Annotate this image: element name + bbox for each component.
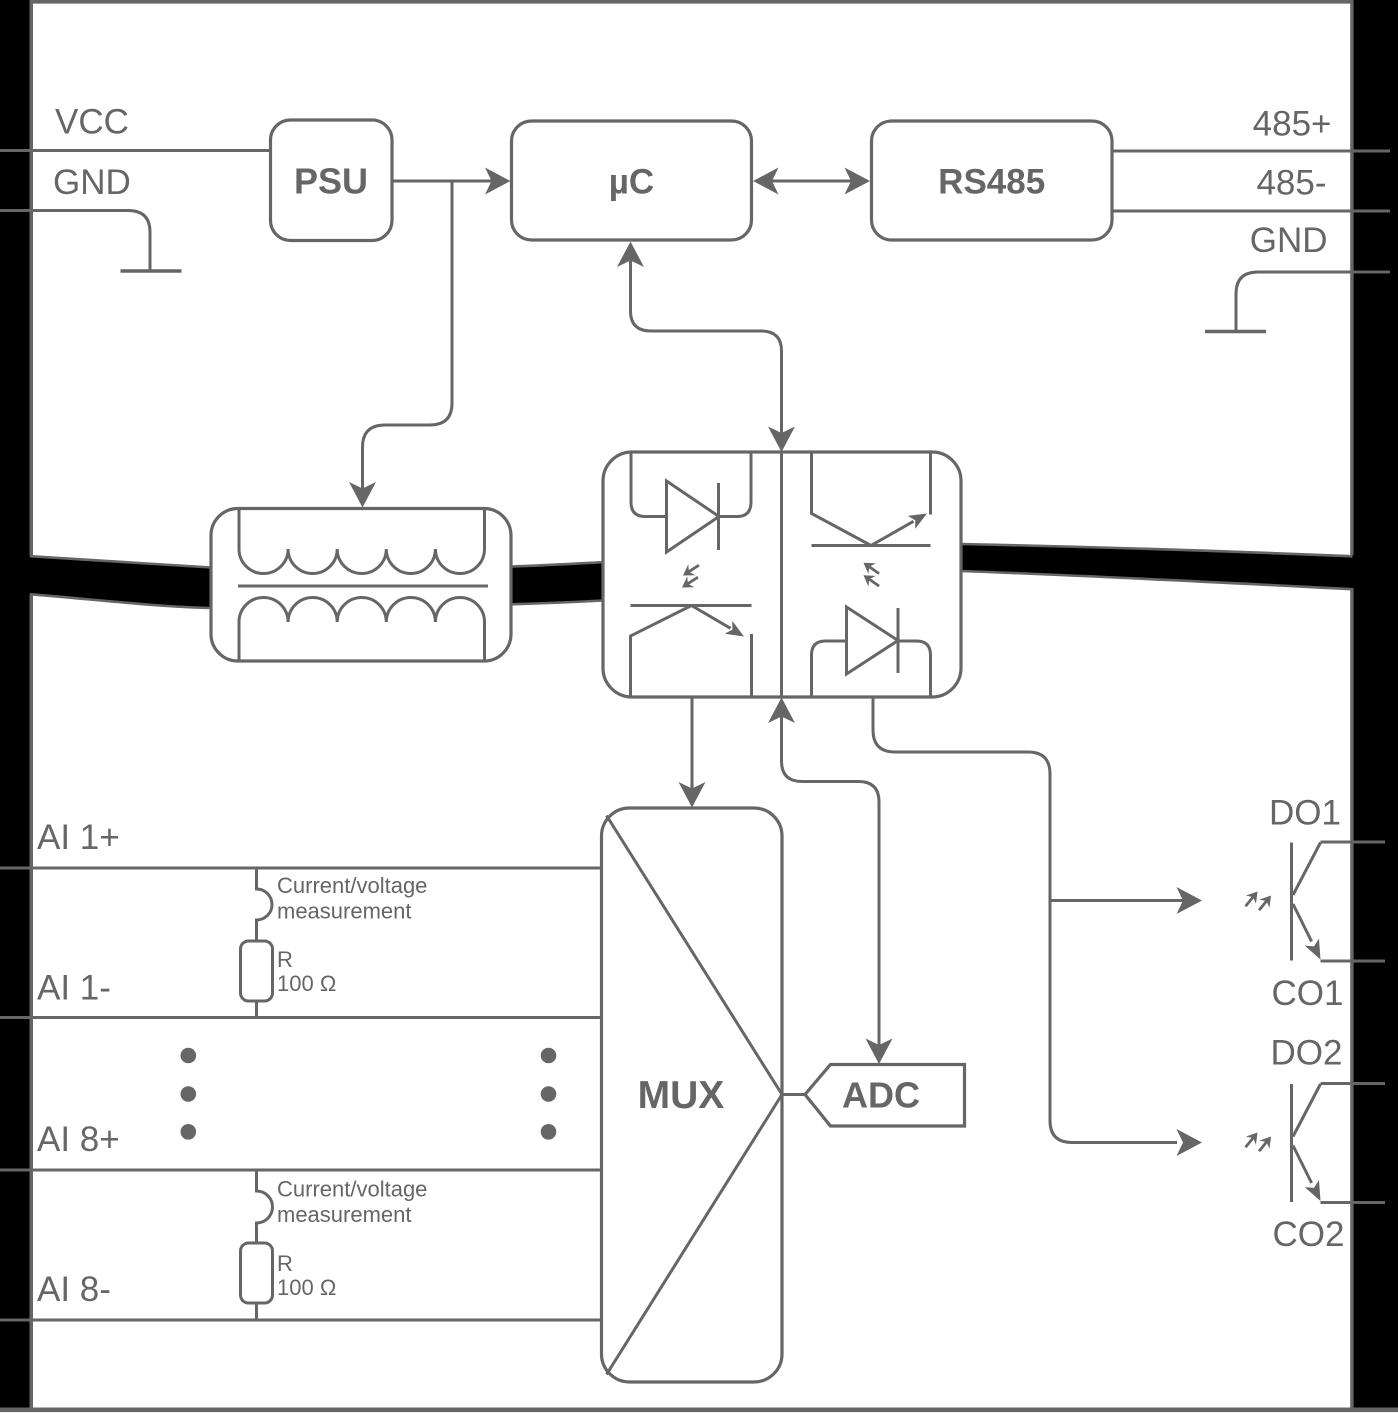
svg-text:MUX: MUX — [638, 1074, 725, 1117]
ground right — [1205, 330, 1266, 333]
label R 100 Ω ch1 — [277, 947, 336, 996]
wire CO2 — [1321, 1201, 1386, 1204]
wire 485- — [1112, 210, 1390, 213]
wire AI 1- — [0, 1016, 602, 1019]
light arrows DO1 — [1240, 887, 1276, 914]
wire µC to optocoupler bidirectional — [617, 242, 795, 453]
power supply PSU — [271, 120, 393, 241]
svg-text:AI 8-: AI 8- — [37, 1270, 111, 1309]
svg-text:measurement: measurement — [277, 898, 412, 923]
transceiver RS485 — [872, 121, 1113, 240]
svg-text:ADC: ADC — [842, 1075, 920, 1116]
wire AI 8- — [0, 1319, 602, 1322]
label current/voltage measurement ch8 — [277, 1177, 427, 1227]
wire optocoupler to ADC bidirectional — [768, 698, 893, 1065]
phototransistor bottom-left cell — [631, 606, 752, 698]
svg-text:RS485: RS485 — [938, 163, 1045, 202]
svg-text:AI 1+: AI 1+ — [37, 818, 120, 857]
svg-text:measurement: measurement — [277, 1202, 412, 1227]
transformer T1 — [211, 509, 511, 662]
isolation barrier band — [20, 544, 1398, 609]
light arrows right cell — [860, 557, 883, 591]
wire AI 1+ — [0, 867, 602, 870]
wire CO1 — [1321, 960, 1386, 963]
LED top-left cell — [631, 452, 751, 552]
wire µC to RS485 bidirectional — [753, 168, 870, 195]
wire PSU to µC — [392, 168, 511, 195]
svg-text:CO1: CO1 — [1272, 974, 1344, 1013]
resistor R 100Ω ch1 — [241, 941, 273, 1018]
svg-text:Current/voltage: Current/voltage — [277, 1177, 427, 1202]
wire VCC — [0, 149, 271, 152]
wire GND left — [0, 211, 150, 272]
svg-text:100 Ω: 100 Ω — [277, 971, 336, 996]
ADC — [782, 1065, 965, 1127]
wire GND right — [1236, 272, 1390, 332]
svg-text:GND: GND — [53, 163, 131, 202]
wire PSU to transformer — [349, 181, 452, 508]
svg-text:AI 8+: AI 8+ — [37, 1120, 120, 1159]
phototransistor top-right cell — [812, 452, 931, 546]
label R 100 Ω ch8 — [277, 1251, 336, 1300]
svg-text:R: R — [277, 1251, 293, 1276]
optocoupler U1 body — [603, 452, 961, 697]
wire optocoupler to digital outputs — [873, 697, 1202, 1156]
multiplexer MUX — [602, 808, 783, 1382]
current/voltage measurement tap ch8 — [257, 1170, 273, 1243]
phototransistor output DO2/CO2 — [1292, 1084, 1321, 1202]
svg-text:AI 1-: AI 1- — [37, 969, 111, 1008]
svg-text:PSU: PSU — [294, 161, 368, 202]
svg-text:100 Ω: 100 Ω — [277, 1275, 336, 1300]
phototransistor output DO1/CO1 — [1292, 843, 1321, 961]
ground left — [121, 269, 182, 272]
svg-text:VCC: VCC — [55, 103, 129, 142]
svg-text:DO2: DO2 — [1271, 1034, 1343, 1073]
wire 485+ — [1112, 150, 1390, 153]
light arrows DO2 — [1240, 1128, 1276, 1155]
svg-text:Current/voltage: Current/voltage — [277, 873, 427, 898]
label current/voltage measurement ch1 — [277, 873, 427, 923]
wire AI 8+ — [0, 1169, 602, 1172]
black margin strip left — [0, 0, 30, 1408]
ellipsis dots left — [181, 1048, 197, 1140]
svg-text:CO2: CO2 — [1273, 1215, 1345, 1254]
svg-text:DO1: DO1 — [1269, 794, 1341, 833]
svg-text:485+: 485+ — [1253, 105, 1332, 144]
LED bottom-right cell — [812, 607, 931, 697]
wire optocoupler to MUX — [679, 697, 706, 808]
svg-text:GND: GND — [1250, 221, 1328, 260]
resistor R 100Ω ch8 — [241, 1243, 273, 1320]
wire DO2 — [1321, 1082, 1386, 1085]
svg-text:µC: µC — [609, 163, 654, 202]
black margin strip right — [1353, 0, 1398, 1408]
svg-text:R: R — [277, 947, 293, 972]
ellipsis dots right — [541, 1048, 557, 1140]
svg-text:485-: 485- — [1256, 164, 1326, 203]
light arrows left cell — [678, 560, 702, 593]
microcontroller µC — [512, 121, 752, 240]
wire DO1 — [1321, 841, 1386, 844]
current/voltage measurement tap ch1 — [257, 868, 273, 941]
